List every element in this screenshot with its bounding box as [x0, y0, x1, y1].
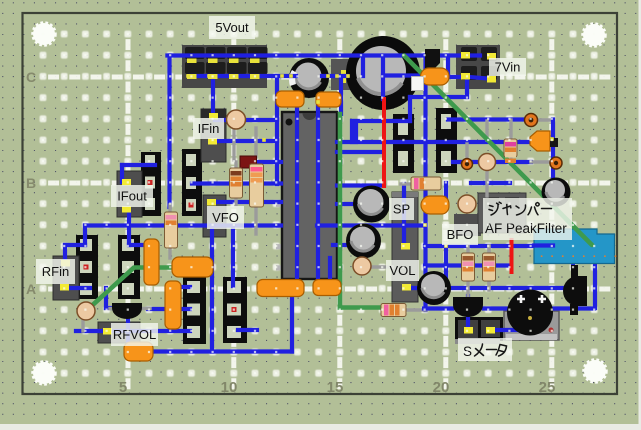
wire x213 IFin drop	[211, 78, 215, 117]
lead resistor R2 bottom	[254, 205, 257, 234]
wire IC right y152	[337, 150, 383, 154]
terminal block S-meter	[455, 317, 503, 341]
ceramic cap CC1 IFin	[227, 110, 246, 129]
wire long x425 vertical	[423, 56, 427, 311]
connector block J2 7Vin	[456, 45, 500, 89]
electrolytic capacitor C1 (large)	[346, 36, 420, 110]
wire y162 left	[252, 160, 281, 164]
wire x233 down	[231, 226, 235, 286]
lead R1 leads	[234, 162, 237, 170]
wire header row2	[191, 74, 296, 78]
electrolytic capacitor C2	[289, 58, 329, 98]
capacitor C9 orange RF1 vertical	[144, 239, 159, 285]
svg-text:IFout: IFout	[117, 189, 147, 204]
svg-text:C: C	[26, 69, 36, 85]
lead VOL tancap	[369, 265, 392, 268]
ceramic cap CC2 RFin	[77, 302, 95, 320]
wire RFin pad2	[66, 286, 90, 290]
wire IC right y186	[337, 183, 384, 187]
small gray block left of C1	[331, 59, 353, 90]
label 5Vout	[209, 16, 255, 39]
capacitor C11 orange horizontal big	[172, 257, 213, 277]
ceramic cap CC5	[458, 195, 476, 213]
wire y309 stub mid	[333, 243, 352, 247]
lead R_e	[168, 205, 171, 213]
svg-text:VOL: VOL	[389, 263, 415, 278]
connector block IFin	[201, 109, 226, 162]
wire y265	[425, 263, 511, 267]
ceramic cap CC4	[479, 154, 496, 171]
svg-text:25: 25	[539, 379, 556, 396]
diode D1 black+orange	[425, 49, 440, 69]
lead R8 vert	[487, 246, 490, 252]
label VFO	[207, 206, 244, 229]
SIP RN2 IF-area	[182, 149, 202, 216]
capacitor C13 orange below IC2	[313, 280, 341, 296]
label RFVOL	[111, 323, 158, 346]
label SP	[389, 198, 414, 220]
svg-text:BFO: BFO	[447, 227, 474, 242]
electrolytic C5	[417, 271, 451, 305]
svg-text:SP: SP	[393, 202, 410, 217]
lead IFin tancap	[232, 120, 235, 160]
connector block RFVOL	[98, 322, 140, 343]
lead resistor R7	[406, 308, 426, 311]
wire y120 right	[448, 117, 524, 121]
ferrite bead L2	[550, 157, 562, 169]
green jumper long diagonal	[404, 56, 592, 246]
svg-text:RFVOL: RFVOL	[113, 327, 156, 342]
connector block J1 (5V header, top-left)	[182, 45, 267, 88]
label jumper AF PeakFilter	[483, 198, 572, 240]
lead resistor R8 left	[401, 182, 412, 185]
wire 5V rail top	[167, 53, 480, 57]
cyan module	[534, 229, 615, 264]
wire y225 long	[85, 223, 281, 227]
wire y226 SP	[317, 223, 425, 227]
wire vertical left drop	[167, 56, 171, 208]
green jumper x340	[338, 114, 343, 308]
SIP RN5 RFVOL-area	[183, 276, 206, 344]
capacitor C16 orange tantalum right	[530, 131, 550, 151]
capacitor C8 orange top2	[316, 92, 341, 107]
wire SIP6 w3	[238, 328, 257, 332]
label IFout	[111, 185, 153, 207]
label S-meter	[458, 338, 512, 361]
connector block RFin	[53, 256, 79, 300]
lead donut1	[465, 144, 468, 160]
wire x330 over IC	[328, 258, 332, 281]
label IFin	[193, 118, 224, 139]
wire y202 VFO	[213, 200, 281, 204]
electrolytic C6	[542, 178, 571, 207]
IC U2 DIP	[393, 114, 414, 173]
resistor R3 vertical IF	[165, 212, 178, 248]
ferrite bead L1	[525, 114, 538, 127]
wire x318 over IC	[316, 102, 320, 281]
lead R_c	[509, 120, 512, 141]
wire y245 left elbows	[83, 226, 87, 246]
wire x404 vol	[402, 184, 406, 243]
wire y288 long	[410, 286, 566, 290]
capacitor C7 orange top1	[276, 91, 304, 107]
transistor Q2 BFO	[453, 297, 483, 317]
module grid dots	[541, 255, 543, 257]
J1 row2 pads over wire	[187, 74, 197, 79]
diode D2 red square	[240, 156, 257, 168]
wire x297 over IC	[295, 93, 299, 279]
label RFin	[36, 259, 75, 284]
wire smeter pads	[466, 296, 470, 325]
capacitor C10 orange RF2 vertical	[165, 281, 181, 329]
wire x341 top	[339, 78, 343, 114]
label VOL	[386, 260, 419, 281]
wire 7Vin pad down-left	[465, 77, 469, 97]
green jumper over module	[566, 219, 592, 245]
wire y246 long	[425, 244, 552, 248]
resistor R6 right	[504, 139, 517, 157]
IC U1 big DIP center	[276, 117, 283, 122]
svg-text:10: 10	[221, 379, 238, 396]
wire x595	[593, 246, 597, 308]
connector block SP/VOL tall	[392, 192, 418, 302]
wire 7Vin vertical link	[446, 56, 450, 78]
wire y117 stub	[350, 121, 354, 142]
resistor R1 vertical	[230, 168, 243, 198]
SIP RN4 RFin-area	[118, 235, 140, 299]
transistor Q1 RFVOL	[112, 303, 142, 319]
wire vfo-sp bottom	[382, 307, 386, 311]
SIP RN6 RFVOL-area	[223, 277, 247, 343]
white crystal X1	[412, 77, 424, 91]
wire bottom long	[147, 349, 292, 353]
speaker black disc	[507, 290, 553, 336]
wire y308 bottom right	[484, 306, 594, 310]
wire y331 RFVOL to SIP	[110, 329, 190, 333]
red wire C1 negative	[382, 99, 386, 186]
lead Q1	[110, 307, 117, 310]
wire y183 left	[192, 181, 281, 185]
wire IFout pad2 down	[127, 210, 131, 245]
svg-text:7Vin: 7Vin	[495, 60, 521, 75]
wire IFout pad link	[122, 163, 155, 167]
resistor R8 horizontal SP	[411, 177, 441, 190]
red wire right	[510, 240, 514, 272]
svg-text:IFin: IFin	[198, 121, 220, 136]
wire x446 segs	[444, 183, 448, 200]
capacitor C12 orange below IC	[257, 280, 304, 297]
wire x573	[571, 246, 575, 266]
wire x277 vertical	[275, 76, 279, 184]
wire RFin tancap	[76, 329, 104, 333]
wire over module	[534, 243, 553, 247]
capacitor C15 orange near VOL	[421, 196, 449, 214]
SIP RN3 RFin-area	[76, 235, 98, 299]
resistor R5 BFO-b	[483, 253, 496, 281]
svg-text:B: B	[26, 175, 36, 191]
label BFO	[442, 224, 478, 245]
speaker base	[504, 311, 559, 340]
svg-text:20: 20	[433, 379, 450, 396]
wire SIP5 windows	[168, 285, 190, 289]
lead tancap2 down	[485, 121, 488, 140]
svg-text:5Vout: 5Vout	[215, 20, 249, 35]
ceramic cap CC3 VOL	[353, 257, 371, 275]
lead BFO resistors	[466, 246, 469, 256]
svg-text:5: 5	[119, 379, 127, 396]
lead y162 right	[531, 160, 552, 163]
resistor R2 vertical salmon	[250, 164, 264, 207]
wire y142 long	[337, 140, 530, 144]
wire IFin pad1 right	[215, 118, 277, 122]
wire C1 leads	[361, 56, 365, 76]
wire y183 jumper-block	[471, 181, 510, 185]
electrolytic C3	[353, 186, 390, 223]
wire x292 up	[290, 296, 294, 352]
connector block VFO	[203, 195, 226, 237]
svg-text:VFO: VFO	[212, 210, 239, 225]
connector block IFout	[117, 171, 142, 217]
gray block BFO	[454, 214, 481, 236]
resistor R7 horizontal bottom	[381, 304, 406, 317]
capacitor C14 orange RFVOL bottom	[124, 342, 153, 361]
wire Q1 connections	[104, 288, 108, 308]
electrolytic C4	[346, 224, 381, 259]
wire IFin pad2 right	[213, 139, 277, 143]
lead RF tancap	[81, 315, 84, 331]
wire y162 right	[453, 160, 531, 164]
resistor R4 BFO-a	[462, 253, 475, 281]
SIP RN1 IFout-area	[141, 152, 161, 216]
label 7Vin	[489, 58, 526, 76]
via dots yellow	[280, 74, 284, 78]
svg-text:15: 15	[327, 379, 344, 396]
green jumper RFin	[86, 268, 180, 312]
wire x212 long down	[210, 226, 214, 352]
svg-text:A: A	[26, 281, 36, 297]
ferrite bead L3	[462, 159, 473, 170]
wire cap1 pin	[337, 202, 371, 206]
yellow pads	[461, 52, 470, 59]
transistor Q3 right	[563, 276, 587, 306]
wire x553 down	[551, 120, 555, 183]
svg-text:AF PeakFilter: AF PeakFilter	[485, 221, 567, 236]
IC U3 DIP	[436, 108, 457, 173]
gray block jumper/AF filter	[478, 193, 526, 233]
